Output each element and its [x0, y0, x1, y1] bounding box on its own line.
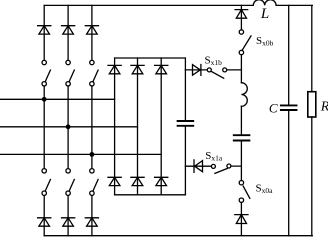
diode (phase-3 bottom): [85, 218, 98, 226]
wire rectifier top rail: [115, 57, 186, 59]
wire column 3 upper: [91, 5, 93, 60]
wire rectifier bottom rail: [115, 194, 186, 196]
switch Sx1a: [211, 164, 215, 168]
switch (phase-1 upper): [42, 60, 46, 64]
diode (rectifier top 1): [108, 65, 121, 73]
diode (top of branch): [235, 10, 248, 19]
switch Sx1b: [207, 68, 211, 72]
diode (rectifier bottom 2): [131, 177, 144, 185]
wire column 2 upper: [67, 5, 69, 60]
wire dc-link vertical: [184, 58, 186, 195]
wire Sx1a branch: [185, 165, 241, 167]
svg-text:Sx0a: Sx0a: [256, 183, 274, 195]
wire column 2 lower: [67, 195, 69, 235]
diode (phase-2 bottom): [62, 218, 75, 226]
wire column 3 lower: [91, 195, 93, 235]
switch Sx0b: [239, 30, 243, 34]
diode (phase-1 top): [38, 26, 51, 34]
diode (rectifier top 2): [131, 65, 144, 73]
diode (bottom of branch): [235, 215, 248, 224]
switch (phase-2 upper): [66, 60, 70, 64]
wire column 1 lower: [43, 195, 45, 235]
node phase B junction: [66, 124, 71, 129]
diode Sx1b: [193, 65, 201, 76]
wire resistor R branch: [311, 5, 313, 235]
wire rectifier leg 3: [160, 58, 162, 195]
diode (phase-3 top): [85, 26, 98, 34]
switch (phase-3 lower): [90, 169, 94, 173]
switch (phase-3 upper): [90, 60, 94, 64]
diode (phase-2 top): [62, 26, 75, 34]
wire rectifier leg 2: [137, 58, 139, 195]
switch (phase-2 lower): [66, 169, 70, 173]
node phase C junction: [90, 152, 95, 157]
wire phase B line: [0, 126, 138, 128]
diode Sx1a: [194, 160, 203, 173]
wire branch bottom: [240, 202, 242, 235]
diode (rectifier top 3): [155, 65, 168, 73]
wire branch below capacitor: [240, 141, 242, 180]
wire column 2 middle: [67, 86, 69, 168]
wire rectifier leg 1: [114, 58, 116, 195]
wire Sx1b branch: [185, 69, 241, 71]
wire column 3 middle: [91, 86, 93, 168]
diode (rectifier bottom 1): [108, 177, 121, 185]
svg-text:Sx0b: Sx0b: [256, 35, 274, 47]
svg-text:L: L: [260, 6, 269, 22]
wire phase C line: [0, 153, 161, 155]
svg-text:R: R: [320, 99, 328, 114]
wire top rail with inductor L: [44, 0, 312, 5]
diode (phase-1 bottom): [38, 218, 51, 226]
wire phase A line: [0, 98, 115, 100]
svg-text:C: C: [269, 100, 278, 115]
diode (rectifier bottom 3): [155, 177, 168, 185]
wire branch to capacitor: [240, 106, 242, 134]
svg-text:Sx1a: Sx1a: [205, 150, 223, 162]
wire bottom rail: [44, 235, 312, 237]
switch Sx0a: [239, 181, 243, 185]
svg-text:Sx1b: Sx1b: [205, 55, 223, 67]
wire branch middle upper: [240, 55, 242, 83]
inductor (branch): [241, 83, 247, 107]
capacitor (branch): [234, 135, 250, 140]
node phase A junction: [42, 97, 47, 102]
resistor R: [308, 92, 316, 117]
capacitor C: [281, 105, 297, 110]
wire column 1 upper: [43, 5, 45, 60]
switch (phase-1 lower): [42, 169, 46, 173]
capacitor dc-link: [178, 121, 194, 126]
wire capacitor C branch: [288, 5, 290, 235]
wire free-wheel branch top: [240, 5, 242, 29]
wire column 1 middle: [43, 86, 45, 168]
